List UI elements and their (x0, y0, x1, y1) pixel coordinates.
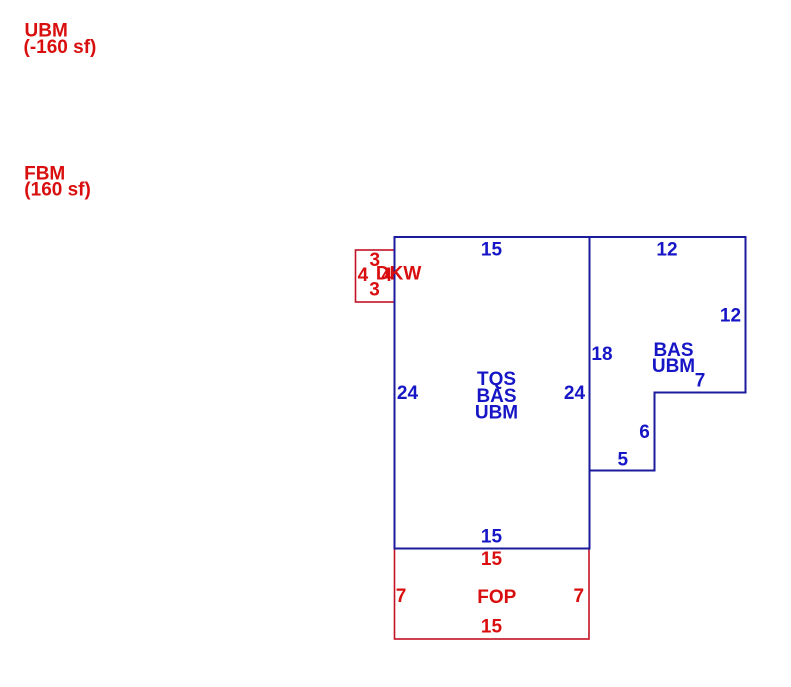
svg-text:12: 12 (656, 240, 677, 261)
svg-text:18: 18 (591, 344, 612, 365)
svg-text:5: 5 (618, 450, 629, 471)
svg-text:7: 7 (396, 586, 407, 607)
svg-text:(160 sf): (160 sf) (24, 179, 91, 200)
svg-text:(-160 sf): (-160 sf) (24, 37, 97, 58)
right wing BAS/UBM outline (590, 237, 746, 471)
svg-text:15: 15 (481, 240, 503, 261)
FOP rectangle outline (395, 549, 590, 640)
svg-text:3: 3 (369, 279, 380, 300)
svg-text:7: 7 (695, 371, 706, 392)
svg-text:15: 15 (481, 549, 503, 570)
area label UBM (-160 sf) (24, 21, 97, 58)
DKW rectangle outline (356, 250, 395, 302)
svg-text:4: 4 (358, 265, 369, 286)
svg-text:24: 24 (397, 383, 419, 404)
svg-text:4: 4 (382, 265, 393, 286)
svg-text:15: 15 (481, 527, 503, 548)
svg-text:15: 15 (481, 617, 503, 638)
svg-text:12: 12 (720, 306, 741, 327)
svg-text:FOP: FOP (477, 587, 516, 608)
svg-text:UBM: UBM (475, 403, 518, 424)
svg-text:24: 24 (564, 383, 586, 404)
svg-text:6: 6 (639, 422, 650, 443)
main rectangle TQS/BAS/UBM outline (395, 237, 590, 549)
svg-text:UBM: UBM (652, 356, 695, 377)
svg-text:7: 7 (574, 586, 585, 607)
area label FBM (160 sf) (24, 163, 91, 200)
